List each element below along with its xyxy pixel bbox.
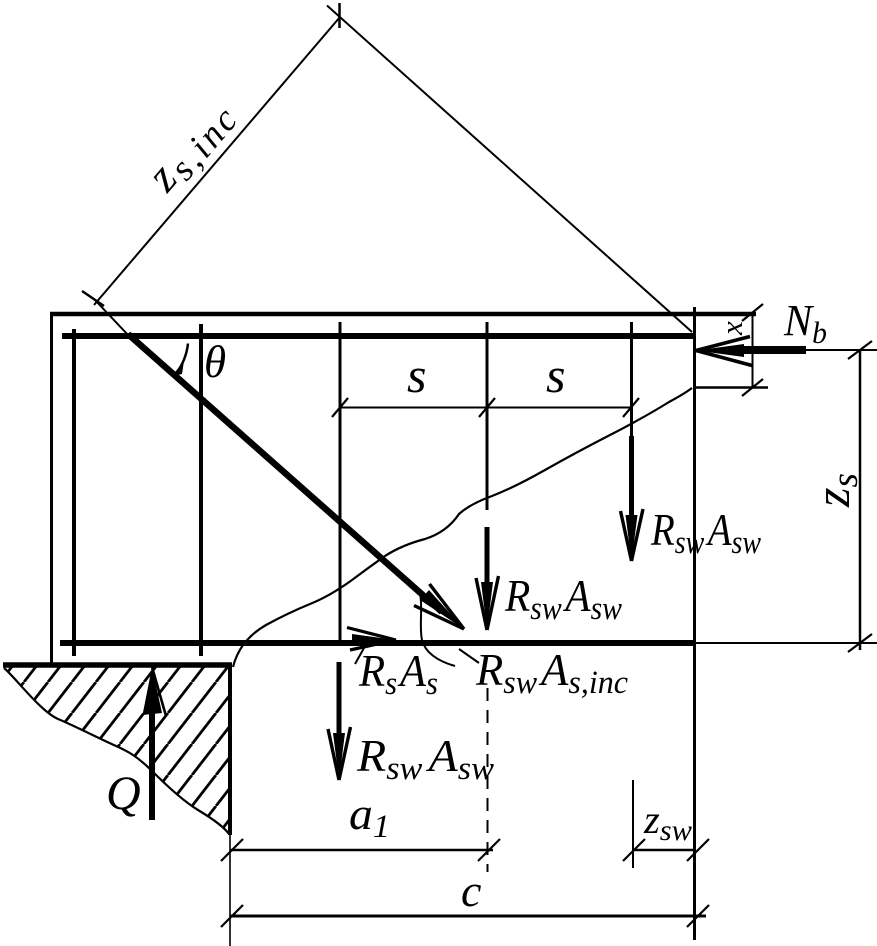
label Zs,inc (136, 87, 248, 204)
stirrup 5 (630, 322, 633, 437)
svg-text:s: s (546, 347, 565, 403)
label Rsw Asw bottom (356, 730, 494, 787)
support hatched block (3, 666, 232, 834)
leader curve to Rsw As,inc (420, 594, 455, 666)
support right edge (228, 665, 232, 835)
leader tick Rs As (355, 648, 364, 664)
bottom bar extension line (695, 642, 877, 644)
dimension s (line with ticks) (332, 398, 639, 417)
label x (714, 321, 749, 336)
beam right edge (693, 307, 696, 940)
svg-text:θ: θ (204, 337, 226, 387)
label z_s (804, 473, 866, 508)
label Rsw As,inc (475, 644, 628, 701)
leader tick Rsw As,inc (459, 649, 479, 663)
top reinforcement bar (62, 333, 693, 339)
label s (first) (407, 347, 426, 403)
inclined bar upper extension (94, 299, 128, 335)
compression zone line (693, 386, 768, 389)
stirrup 1 (72, 329, 76, 656)
svg-text:x: x (714, 321, 749, 336)
force arrow Q (143, 667, 167, 820)
label Nb (783, 296, 827, 350)
extension line z_sw (632, 780, 634, 868)
dimension line Zs,inc (82, 3, 340, 306)
support edge extension line (229, 835, 231, 946)
force arrow Rs As on bottom bar (347, 628, 396, 651)
bottom reinforcement bar (60, 640, 695, 646)
label Rs As (358, 645, 438, 702)
support break wavy outline (4, 668, 229, 834)
svg-text:Q: Q (106, 767, 141, 820)
label c (461, 865, 481, 916)
stirrup 2 (199, 324, 203, 656)
label Rsw Asw middle (504, 570, 622, 627)
force arrow Rsw Asw right (621, 436, 644, 561)
angle arc theta (172, 344, 189, 377)
label z_sw (643, 797, 692, 847)
force arrow Nb (696, 337, 806, 366)
beam top edge (50, 312, 756, 317)
Nb extension line (806, 349, 877, 351)
svg-text:s: s (407, 347, 426, 403)
dashed extension line a1 (487, 688, 489, 872)
extension line from corner to apex (327, 6, 692, 333)
dimension x (742, 304, 763, 396)
dimension a1 (221, 839, 500, 861)
support top edge (3, 662, 232, 668)
beam left edge (50, 312, 53, 664)
stirrup 4 (486, 322, 489, 510)
dimension z_sw (623, 839, 709, 861)
force arrow Rsw Asw middle (476, 527, 499, 630)
inclined bar (128, 334, 464, 629)
svg-text:c: c (461, 865, 481, 916)
label Rsw Asw right (650, 504, 761, 561)
dimension c (221, 905, 709, 927)
label theta (204, 337, 226, 387)
dimension z_s (848, 341, 872, 652)
stirrup 3 (339, 322, 342, 646)
force arrow Rsw Asw bottom (328, 662, 351, 780)
inclined crack (233, 388, 692, 667)
label Q (106, 767, 141, 820)
label s (second) (546, 347, 565, 403)
label a1 (349, 788, 390, 845)
